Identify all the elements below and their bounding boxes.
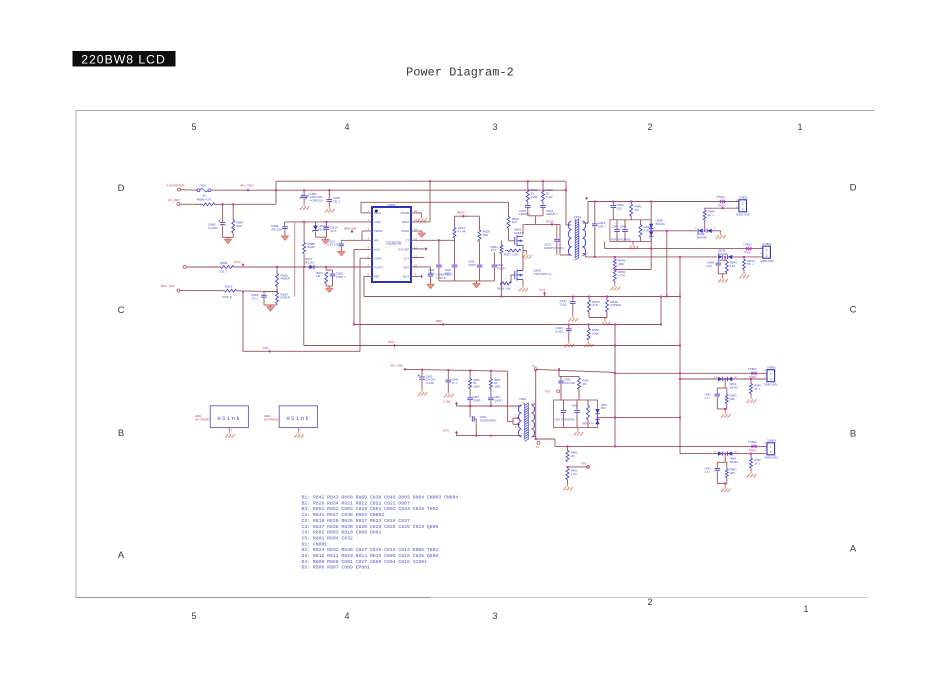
svg-text:RB10: RB10 bbox=[457, 210, 465, 214]
junction bleeder top bbox=[614, 256, 616, 258]
chassis ground out3 filter bbox=[721, 411, 731, 417]
resistor R887 bbox=[232, 220, 235, 233]
capacitor C848 bbox=[716, 262, 722, 264]
junction fb top bbox=[558, 368, 560, 370]
svg-text:10 J: 10 J bbox=[452, 381, 458, 385]
junction C832 bbox=[568, 324, 570, 326]
svg-text:SR160: SR160 bbox=[730, 460, 739, 464]
connector CN802 bbox=[763, 246, 771, 258]
junction C812 top bbox=[594, 201, 596, 203]
connector +5VS bbox=[183, 266, 186, 269]
svg-text:0.047UF: 0.047UF bbox=[436, 276, 446, 280]
ground pin10 bbox=[427, 284, 434, 288]
resistor R862 1K bbox=[750, 458, 753, 468]
junction D844 mid bbox=[724, 453, 726, 455]
resistor R863 68K bbox=[725, 469, 728, 478]
svg-text:20862-0410: 20862-0410 bbox=[760, 259, 774, 263]
wire pin4 INP bbox=[341, 239, 372, 241]
capacitor C857 bbox=[561, 410, 567, 412]
chassis ground C842 bbox=[418, 389, 428, 395]
wire pin3 stub bbox=[362, 230, 372, 232]
svg-text:(LF): (LF) bbox=[707, 264, 713, 268]
resistor R845 47K bbox=[588, 300, 591, 312]
junction line A x430 bbox=[429, 180, 431, 182]
Y-capacitor C881 bbox=[301, 195, 307, 197]
wire C885 R887 join bbox=[223, 236, 234, 238]
wire out3 filter bottom bbox=[717, 408, 727, 410]
svg-text:C1: R841 R847 C838 D802 CN802: C1: R841 R847 C838 D802 CN802 bbox=[302, 512, 385, 518]
wire T802 secondary rail bbox=[535, 369, 537, 439]
svg-text:4.7J: 4.7J bbox=[705, 396, 711, 400]
wire vertical x276 bbox=[275, 181, 277, 204]
junction Y1 x680 bbox=[679, 345, 681, 347]
svg-text:470P J: 470P J bbox=[445, 272, 454, 276]
svg-text:2200P J: 2200P J bbox=[546, 212, 558, 216]
tick INV_VDD 2 bbox=[404, 368, 407, 371]
svg-text:HSink: HSink bbox=[286, 415, 310, 422]
svg-text:DRV2: DRV2 bbox=[402, 220, 410, 224]
wire secondary bottom stub bbox=[583, 253, 586, 255]
junction C817 bbox=[572, 296, 574, 298]
svg-text:1M: 1M bbox=[316, 274, 321, 278]
diode D846a bbox=[649, 224, 653, 229]
resistor R819 47.4K bbox=[453, 228, 456, 239]
capacitor C820 4700P bbox=[477, 264, 483, 266]
junction D842 mid bbox=[724, 256, 726, 258]
junction D849 mid bbox=[704, 230, 706, 232]
wire BNT in bbox=[180, 290, 225, 292]
chassis ground C887 bbox=[325, 206, 335, 212]
wire riser x615 bbox=[614, 346, 616, 447]
svg-text:470 50V: 470 50V bbox=[271, 228, 283, 232]
wire net line A bbox=[276, 180, 566, 182]
svg-text:TP801: TP801 bbox=[718, 204, 726, 207]
svg-text:OUTPT: OUTPT bbox=[374, 265, 383, 269]
connector pin bbox=[537, 441, 540, 444]
svg-text:C2: R819 R820 R825 R827 R823 C: C2: R819 R820 R825 R827 R823 C819 C837 bbox=[302, 518, 410, 524]
resistor R822 1K2 bbox=[507, 217, 510, 229]
wire net OUT3 lower bbox=[680, 378, 767, 380]
capacitor C852 2200P bbox=[488, 397, 494, 399]
svg-text:R856: R856 bbox=[582, 378, 589, 382]
resistor R820 56K bbox=[478, 230, 481, 241]
diode D844b bbox=[728, 451, 733, 455]
wire Q801 to Q802 bbox=[522, 251, 524, 271]
wire pin15 DRV2 bbox=[411, 221, 430, 223]
chassis ground R851 bbox=[584, 341, 594, 347]
wire net OUTPT bbox=[234, 266, 372, 268]
svg-text:4: 4 bbox=[344, 122, 349, 132]
resistor R841 1M bbox=[630, 204, 633, 216]
svg-text:C849: C849 bbox=[452, 377, 459, 381]
capacitor bbox=[554, 238, 560, 240]
svg-text:2700 P: 2700 P bbox=[222, 295, 232, 299]
svg-text:50K: 50K bbox=[237, 224, 243, 228]
tick pin9 bbox=[420, 275, 423, 278]
svg-text:C825: C825 bbox=[445, 268, 452, 272]
svg-text:R860: R860 bbox=[571, 450, 578, 454]
svg-text:1/2W: 1/2W bbox=[546, 195, 553, 199]
svg-text:2200P J: 2200P J bbox=[497, 266, 507, 270]
svg-text:10 50V: 10 50V bbox=[208, 226, 219, 230]
chassis ground snubber box bbox=[629, 243, 639, 249]
wire net secondary top bbox=[536, 369, 615, 372]
wire pin11 stub bbox=[411, 257, 425, 259]
wire snubber join bbox=[528, 215, 543, 217]
border frame bbox=[76, 111, 875, 599]
svg-text:RB8-30K: RB8-30K bbox=[344, 227, 357, 231]
resistor R828 10K bbox=[500, 282, 511, 285]
junction out4 filter bbox=[724, 482, 726, 484]
junction R887 bbox=[232, 203, 234, 205]
svg-text:15K: 15K bbox=[730, 264, 736, 268]
resistor R856 300 bbox=[578, 378, 581, 390]
svg-text:D1: CN801: D1: CN801 bbox=[302, 541, 328, 547]
connector CN803 bbox=[767, 370, 775, 382]
junction divider mid bbox=[276, 291, 278, 293]
svg-text:INV_VDD: INV_VDD bbox=[240, 184, 254, 188]
junction x661 bottom bbox=[660, 324, 662, 326]
svg-text:3: 3 bbox=[492, 122, 497, 132]
svg-text:D4: R809 R888 C801 C827 C805 C: D4: R809 R888 C801 C827 C805 C804 C818 I… bbox=[302, 559, 428, 565]
capacitor C815 2200P bbox=[525, 205, 531, 207]
capacitor C812 10P bbox=[592, 223, 598, 225]
junction C849 bbox=[447, 369, 449, 371]
svg-text:C3: R837 R838 R830 C820 C829 C: C3: R837 R838 R830 C820 C829 C826 C825 C… bbox=[302, 524, 439, 530]
junction R854 bbox=[490, 370, 492, 372]
capacitor C826 30P bbox=[436, 264, 442, 266]
svg-text:FB1: FB1 bbox=[263, 346, 269, 350]
junction C842 bbox=[421, 369, 423, 371]
transformer T802 bbox=[518, 405, 534, 437]
svg-text:56K: 56K bbox=[483, 233, 489, 237]
wire pin5 AGN bbox=[354, 248, 372, 250]
resistor R849 2M2 bbox=[613, 259, 616, 269]
svg-text:560K: 560K bbox=[308, 245, 316, 249]
svg-text:D2: R824 R832 R846 C817 C845 C: D2: R824 R832 R846 C817 C845 C815 C814 D… bbox=[302, 547, 439, 553]
svg-text:R858: R858 bbox=[754, 383, 761, 387]
svg-text:4.7M: 4.7M bbox=[618, 274, 625, 278]
svg-text:D4-D: D4-D bbox=[443, 428, 449, 432]
wire timing gnd bus bbox=[439, 280, 495, 282]
resistor R812 1M bbox=[325, 272, 328, 284]
junction OUT2 line bbox=[650, 248, 652, 250]
svg-text:1: 1 bbox=[803, 604, 808, 614]
svg-text:20862-0410: 20862-0410 bbox=[764, 455, 778, 459]
capacitor C817 2200 bbox=[570, 301, 576, 303]
wire to ZD801 bbox=[315, 222, 317, 226]
svg-text:2200P J: 2200P J bbox=[494, 399, 504, 402]
capacitor C847 bbox=[622, 229, 628, 231]
test point TP804 bbox=[751, 444, 756, 448]
svg-text:HS-TR6097: HS-TR6097 bbox=[264, 418, 279, 422]
resistor R861 4.7M bbox=[566, 469, 569, 480]
svg-text:+5VS: +5VS bbox=[233, 260, 241, 264]
wire drain node bbox=[524, 223, 560, 225]
junction snubber 1 bbox=[527, 180, 529, 182]
svg-text:C-RtrL: C-RtrL bbox=[443, 399, 451, 403]
svg-text:D: D bbox=[850, 183, 857, 194]
wire fb to riser bbox=[598, 417, 681, 419]
resistor R816 82 1/2W bbox=[526, 190, 529, 202]
wire rail to taps bbox=[507, 371, 509, 421]
svg-text:470P/2KV(OPEN): 470P/2KV(OPEN) bbox=[611, 238, 631, 241]
wire net INV_VDD rail bbox=[405, 369, 508, 371]
wire sec bottom step bbox=[536, 438, 555, 440]
capacitor C887 bbox=[327, 199, 333, 201]
svg-text:R827 10K: R827 10K bbox=[504, 252, 519, 256]
tick pin12 bbox=[425, 247, 428, 250]
wire VDDH riser bbox=[359, 258, 361, 351]
wire pin9 stub bbox=[411, 276, 420, 278]
ground pin14 bbox=[418, 233, 425, 237]
svg-text:1: 1 bbox=[797, 122, 802, 132]
svg-text:INV_VDD: INV_VDD bbox=[390, 363, 404, 367]
svg-text:PG1: PG1 bbox=[539, 288, 545, 292]
junction AGN riser bbox=[353, 324, 355, 326]
svg-text:4.7M: 4.7M bbox=[571, 472, 578, 476]
svg-text:AGN: AGN bbox=[374, 248, 380, 252]
chassis ground fb box bbox=[574, 429, 584, 435]
junction line B x276 bbox=[275, 189, 277, 191]
svg-text:BZV: BZV bbox=[601, 406, 606, 410]
wire out3 filter top bbox=[717, 387, 727, 389]
tick OUT1 pin2 bbox=[721, 207, 724, 210]
svg-text:0.68J: 0.68J bbox=[556, 330, 564, 334]
svg-text:HS-TR6097: HS-TR6097 bbox=[195, 418, 210, 422]
svg-text:10.2: 10.2 bbox=[491, 248, 497, 252]
wire net OUT4 top bbox=[555, 445, 767, 447]
net flag FB2 bbox=[587, 465, 590, 468]
test point TP801 bbox=[720, 200, 725, 204]
connector pin bbox=[534, 368, 537, 371]
resistor R827 10K bbox=[508, 249, 522, 252]
svg-text:2SK2645-LG: 2SK2645-LG bbox=[534, 272, 552, 276]
resistor R814 500KP bbox=[276, 293, 279, 304]
ground C885 bbox=[224, 239, 231, 243]
resistor R842 bbox=[639, 225, 642, 238]
svg-text:(LF)470P: (LF)470P bbox=[564, 381, 575, 385]
svg-text:R862: R862 bbox=[754, 458, 761, 462]
svg-text:1K J: 1K J bbox=[754, 461, 760, 465]
tick PG1 bbox=[543, 292, 546, 295]
tick gate drive 2 bbox=[455, 431, 458, 434]
capacitor C855 bbox=[558, 380, 564, 382]
wire net aux line bbox=[243, 350, 360, 352]
title block bbox=[73, 51, 176, 67]
capacitor C829 2200P bbox=[492, 264, 498, 266]
svg-text:BAV99: BAV99 bbox=[697, 236, 707, 240]
svg-text:K2645: K2645 bbox=[514, 231, 523, 235]
snubber capacitor C816 bbox=[556, 224, 558, 238]
wire pin6 VDDH bbox=[360, 257, 372, 259]
capacitor C834 bbox=[324, 227, 330, 229]
resistor R857 4.7K bbox=[587, 406, 590, 420]
svg-text:470P J: 470P J bbox=[336, 275, 346, 279]
capacitor C825 470P bbox=[452, 264, 458, 266]
capacitor C851 2200P bbox=[467, 397, 473, 399]
chassis ground pin16 bbox=[417, 215, 427, 221]
chassis ground H801 bbox=[225, 431, 235, 437]
svg-text:OUT1MP: OUT1MP bbox=[398, 248, 409, 252]
feedback network box bbox=[554, 400, 598, 428]
wire RC bottom bbox=[326, 285, 332, 287]
ground timing bbox=[473, 284, 480, 288]
junction R888 bottom bbox=[303, 266, 305, 268]
svg-text:C862: C862 bbox=[705, 467, 712, 471]
svg-text:PWMH: PWMH bbox=[374, 229, 383, 233]
wire R886 to node bbox=[215, 203, 277, 205]
junction C812 bottom bbox=[594, 256, 596, 258]
resistor R852 10K bbox=[469, 379, 472, 389]
svg-text:REF: REF bbox=[374, 275, 380, 279]
svg-text:5K J: 5K J bbox=[747, 262, 754, 266]
svg-text:3300P(OPEN): 3300P(OPEN) bbox=[480, 418, 497, 422]
svg-text:3: 3 bbox=[492, 611, 497, 621]
resistor R815 400KP bbox=[276, 274, 279, 287]
wire AC_DET to R886 bbox=[180, 203, 203, 205]
wire bus link x661 bbox=[660, 297, 662, 325]
wire net sense bus bbox=[304, 345, 680, 347]
transformer T801 primary/secondary bbox=[568, 221, 585, 256]
svg-text:2: 2 bbox=[647, 597, 652, 607]
junction fb divider bbox=[276, 266, 278, 268]
ground C833 bbox=[338, 251, 345, 255]
svg-text:ENA: ENA bbox=[403, 265, 409, 269]
svg-text:C857 470P(OPEN): C857 470P(OPEN) bbox=[555, 419, 576, 422]
wire fb top link bbox=[559, 375, 579, 377]
tick RB9 bbox=[442, 323, 445, 326]
tick +5VS bbox=[242, 263, 245, 266]
wire net DRV1 gate line bbox=[361, 201, 509, 203]
svg-text:100 25V: 100 25V bbox=[426, 378, 436, 382]
resistor R821 10.2 bbox=[500, 245, 503, 254]
junction riser top bbox=[679, 256, 681, 258]
chassis ground C832 bbox=[564, 341, 574, 347]
resistor R854 10K bbox=[489, 379, 492, 389]
svg-text:C829: C829 bbox=[497, 263, 504, 267]
IC U801 SG6938 body bbox=[372, 207, 411, 282]
svg-text:DRV1: DRV1 bbox=[374, 211, 382, 215]
svg-text:TP803: TP803 bbox=[748, 367, 757, 371]
svg-text:RB9: RB9 bbox=[436, 319, 442, 323]
wire net OUT1 diode feed bbox=[651, 230, 697, 232]
capacitor C836 open bbox=[428, 273, 434, 275]
wire out2 filter top bbox=[718, 259, 727, 261]
wire to C881 bbox=[303, 190, 305, 195]
svg-text:0.33 1%: 0.33 1% bbox=[327, 243, 339, 247]
junction R852 bbox=[469, 370, 471, 372]
ground RC snub bbox=[326, 288, 333, 292]
svg-text:4: 4 bbox=[344, 611, 349, 621]
capacitor C841 bbox=[611, 205, 617, 207]
wire to C834 bbox=[325, 222, 327, 227]
capacitor C845 bbox=[614, 229, 620, 231]
svg-text:F901: F901 bbox=[200, 183, 207, 187]
junction R862 bbox=[750, 453, 752, 455]
junction gd2 bbox=[490, 405, 492, 407]
resistor R886 bbox=[203, 203, 215, 206]
junction OUT3 return bbox=[679, 378, 681, 380]
wire net primary bus bbox=[364, 296, 680, 298]
resistor R847 15K bbox=[725, 262, 728, 273]
chassis ground C881 bbox=[300, 203, 310, 209]
svg-text:2200P J: 2200P J bbox=[473, 399, 483, 402]
svg-text:R05A: R05A bbox=[546, 220, 555, 224]
junction snubber 2 bbox=[542, 180, 544, 182]
zener D857b bbox=[595, 420, 599, 425]
svg-text:68K: 68K bbox=[730, 471, 735, 475]
capacitor C862 bbox=[715, 467, 721, 469]
wire fb tap bbox=[568, 466, 591, 468]
svg-text:FB2: FB2 bbox=[582, 461, 587, 465]
junction OUT4 bbox=[614, 445, 616, 447]
wire net OUT3 top bbox=[615, 372, 767, 374]
svg-text:7/2 J: 7/2 J bbox=[251, 297, 258, 301]
junction fb tap bbox=[614, 417, 616, 419]
wire line A to primary bbox=[565, 181, 567, 225]
svg-text:T802: T802 bbox=[519, 397, 526, 401]
diode D846b bbox=[649, 232, 653, 237]
chassis ground out4 filter bbox=[721, 486, 731, 492]
junction Y-cap 1 bbox=[303, 189, 305, 191]
junction R841 top bbox=[630, 201, 632, 203]
connector CN804 bbox=[767, 443, 775, 455]
wire net OUT2 top bbox=[605, 248, 763, 250]
junction R860 mid bbox=[567, 466, 569, 468]
diode D842a bbox=[718, 255, 723, 259]
wire gate drive 1 bbox=[457, 405, 522, 407]
wire net INV line B bbox=[211, 189, 566, 191]
junction riser OUT3 top bbox=[679, 372, 681, 374]
junction OUT1 return bbox=[666, 230, 668, 232]
svg-text:PWMB: PWMB bbox=[401, 211, 410, 215]
svg-text:1K J: 1K J bbox=[708, 213, 715, 217]
capacitor C885 bbox=[220, 222, 226, 224]
chassis ground Q802 source bbox=[519, 285, 529, 291]
junction CT cap bbox=[438, 239, 440, 241]
chassis ground R845 bbox=[601, 319, 611, 325]
ground C884 bbox=[281, 236, 288, 240]
chassis ground R843 bbox=[740, 272, 750, 278]
svg-text:INP: INP bbox=[374, 238, 379, 242]
junction out3 filter bbox=[724, 408, 726, 410]
resistor R860 2M bbox=[566, 451, 569, 462]
svg-text:T801: T801 bbox=[574, 215, 581, 219]
capacitor C842 bbox=[419, 376, 425, 378]
wire V-INVERTER to fuse bbox=[180, 189, 197, 192]
svg-text:500KP: 500KP bbox=[281, 296, 290, 300]
chassis ground OUT1 bbox=[716, 232, 726, 238]
svg-text:1/2W: 1/2W bbox=[531, 195, 538, 199]
connector AC_DET bbox=[177, 203, 180, 206]
svg-text:A: A bbox=[118, 550, 125, 561]
wire net VDD pin2 bbox=[285, 221, 373, 223]
wire CT cap drop bbox=[438, 240, 440, 264]
junction sense bbox=[500, 296, 502, 298]
capacitor C849 bbox=[446, 379, 452, 381]
zener D857a bbox=[595, 409, 599, 414]
junction OUT3 bbox=[614, 372, 616, 374]
chassis ground C817 bbox=[568, 315, 578, 321]
tick FB1 bbox=[268, 350, 271, 353]
diode D811 bbox=[309, 265, 314, 269]
wire pin8 REF stub bbox=[364, 276, 372, 278]
junction BNT riser bbox=[242, 291, 244, 293]
junction T802 bottom bbox=[535, 438, 537, 440]
svg-text:220BW8 LCD: 220BW8 LCD bbox=[81, 52, 166, 66]
chassis ground R858 bbox=[747, 397, 757, 403]
